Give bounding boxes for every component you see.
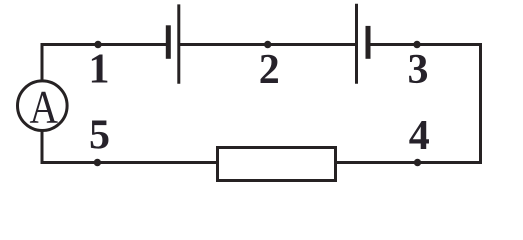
svg-text:2: 2 [259, 47, 280, 93]
svg-text:4: 4 [409, 113, 430, 159]
svg-text:1: 1 [89, 47, 110, 93]
svg-text:5: 5 [89, 113, 110, 159]
svg-text:A: A [30, 81, 59, 133]
svg-text:3: 3 [408, 47, 429, 93]
